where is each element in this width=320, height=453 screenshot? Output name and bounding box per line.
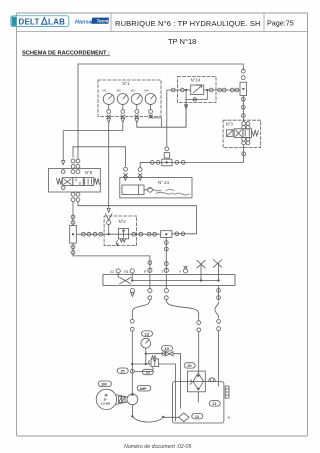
couplers N°3 bottom <box>242 138 250 145</box>
box N°2 dashed <box>104 216 137 246</box>
svg-text:Tecnik: Tecnik <box>97 19 112 24</box>
junction dots gauge line <box>131 353 147 366</box>
coupler below M2 <box>121 110 125 123</box>
svg-text:X2: X2 <box>110 270 114 274</box>
svg-text:1M: 1M <box>101 382 107 387</box>
gauge M3 <box>131 89 143 110</box>
valve N°9 4/3 body <box>62 178 94 186</box>
flow meter FM1 <box>240 82 247 95</box>
coupler circles above P port <box>148 261 152 273</box>
couplers below P <box>148 289 152 300</box>
box N°9 solid <box>49 168 101 192</box>
svg-text:20: 20 <box>187 363 192 368</box>
wire N°14 drain down <box>185 102 187 127</box>
ports N°9 top inside <box>61 170 80 174</box>
valve N°3 4/2 <box>234 129 251 138</box>
coupler circles below FM2 <box>71 245 75 254</box>
gauge M4 <box>144 89 156 110</box>
gauge G13 <box>141 338 151 348</box>
wire N°24 right up to cylinder line <box>140 162 150 167</box>
pump P1 <box>127 393 138 404</box>
relief valve V18 <box>149 356 159 367</box>
svg-text:Page:75: Page:75 <box>267 19 294 28</box>
wire N°14 right <box>204 89 240 91</box>
coupler circles N°14 left <box>171 88 184 92</box>
level gauge <box>225 386 229 398</box>
svg-text:N°3: N°3 <box>226 121 234 126</box>
needle valve V19 <box>162 352 173 356</box>
flow control valve N°14 <box>191 85 204 95</box>
svg-text:TP N°18: TP N°18 <box>168 37 196 46</box>
coupler circles above N°3 <box>241 97 245 117</box>
junction dots N°14 <box>185 89 208 91</box>
coupler below R1 <box>130 289 134 297</box>
svg-text:M2: M2 <box>117 89 121 93</box>
balloon 1MP pump <box>137 385 151 391</box>
coupler circles on N°2 wire <box>82 232 103 236</box>
port 15 on pump column <box>130 370 134 374</box>
spring N°9 left <box>57 178 63 184</box>
logo DELTALAB <box>11 16 69 27</box>
svg-text:12: 12 <box>195 414 200 419</box>
wire to needle valve <box>146 353 165 355</box>
wire N°9 to N°24 left couplers <box>73 147 126 166</box>
wire N°9 B-port down to flowmeter FM2 <box>72 202 74 226</box>
couplers N°9 bottom <box>71 192 80 201</box>
restrictor on T2 up line <box>164 147 169 158</box>
couplers pump column <box>130 319 134 331</box>
wire relief drain <box>134 367 153 372</box>
wire FM1 down to N°3 <box>242 96 244 122</box>
hose squiggle return <box>215 302 219 318</box>
balloon 1M motor <box>98 381 111 387</box>
wire N°9 A-port down then right (W1) <box>78 202 197 234</box>
cylinder N°24 <box>122 185 152 195</box>
svg-text:M4: M4 <box>144 89 148 93</box>
coupler below M3 <box>135 110 139 123</box>
wire top supply line <box>78 64 243 159</box>
return filter F20 <box>188 371 206 392</box>
port X2 <box>110 269 120 278</box>
wire return into tank <box>218 331 220 387</box>
wire FM2 to tee T1 <box>76 233 160 235</box>
svg-text:N°1: N°1 <box>123 81 131 86</box>
wire filter outlet <box>197 392 199 402</box>
junction dot N°2 inlet <box>108 233 110 235</box>
manifold P passage <box>149 275 151 289</box>
solenoid N°3 left <box>226 130 233 137</box>
box N°1 dashed <box>98 80 161 117</box>
balloon 18 <box>142 369 153 374</box>
svg-text:N°14: N°14 <box>191 77 201 82</box>
check valve V1 into N°2 <box>105 214 112 234</box>
wire pump junction to relief <box>132 363 151 365</box>
balloon 13 <box>142 331 153 336</box>
spring N°9 right <box>94 178 100 184</box>
svg-text:19: 19 <box>165 346 170 351</box>
wire M3 to N°14 bypass <box>137 99 186 127</box>
balloon 15 <box>117 368 128 373</box>
svg-text:N° 24: N° 24 <box>158 180 170 185</box>
couplers tank return column <box>197 321 201 332</box>
wire manifold return to tank <box>218 286 220 301</box>
svg-text:R1: R1 <box>124 270 129 274</box>
box N°14 dashed <box>178 76 216 102</box>
manifold internal return line <box>132 280 218 282</box>
couplers N°3 top <box>242 122 250 129</box>
wire M4 jog <box>151 115 162 127</box>
svg-text:DELT: DELT <box>19 18 40 27</box>
port Y <box>179 267 188 274</box>
svg-text:Numéro de document :02-05: Numéro de document :02-05 <box>124 444 191 450</box>
svg-text:N°9: N°9 <box>85 170 93 175</box>
svg-text:M1: M1 <box>103 89 107 93</box>
coupler below M1 <box>107 110 111 123</box>
wire pump column down <box>131 331 133 394</box>
wire M1 down <box>108 123 110 209</box>
couplers return right lower <box>217 320 221 331</box>
manifold T passage <box>165 275 167 289</box>
coupling motor-pump <box>116 395 127 405</box>
wire pump suction arc <box>131 405 164 422</box>
wire T1 down to T port <box>165 238 167 273</box>
spring N°3 right <box>252 130 259 135</box>
coupler below M4 <box>149 110 153 119</box>
header row lines <box>17 13 308 32</box>
wire relief out to tank <box>159 364 176 421</box>
wire G13 down <box>145 348 147 364</box>
arrow into N°9 left <box>62 161 65 165</box>
crossed link X2-R1 <box>120 277 134 283</box>
wire suction to strainer <box>163 416 178 418</box>
svg-text:LAB: LAB <box>48 18 65 27</box>
arrow on drain <box>185 105 188 109</box>
coupler circles top right column <box>241 69 245 79</box>
junction dots filter <box>197 375 199 390</box>
svg-text:N°2: N°2 <box>119 219 127 224</box>
handwriting marks N°24 <box>147 189 190 195</box>
svg-text:1MP: 1MP <box>139 387 147 391</box>
svg-text:13: 13 <box>145 331 150 336</box>
balloon 11 <box>209 401 220 406</box>
plugged port XB <box>213 260 221 282</box>
svg-text:M3: M3 <box>131 89 135 93</box>
coupler circles N°14 right <box>209 88 239 92</box>
wire N°3 down to cylinder line <box>140 145 243 163</box>
tank <box>173 382 224 423</box>
port R1 <box>124 269 134 281</box>
manifold block <box>103 275 235 286</box>
coupler circles on W1 return <box>175 232 185 236</box>
wire N°14 left <box>167 90 191 147</box>
plugged port XA <box>197 260 205 281</box>
svg-text:SCHEMA DE RACCORDEMENT :: SCHEMA DE RACCORDEMENT : <box>22 51 110 57</box>
breather <box>209 378 216 382</box>
box N°24 solid <box>120 178 192 198</box>
balloon 20 <box>184 363 195 368</box>
svg-text:1,5 kW: 1,5 kW <box>101 402 111 406</box>
svg-text:15: 15 <box>120 368 125 373</box>
wire FM2 down then right to P column <box>73 243 150 273</box>
coupler circles cylinder line right <box>175 161 185 165</box>
motor M <box>96 389 116 409</box>
balloon 19 <box>162 346 173 351</box>
bypass check N°14 <box>186 90 207 101</box>
balloon 12 <box>192 414 203 419</box>
logo HansaTecnik <box>75 18 111 26</box>
coupler circle below N°3 <box>242 152 246 156</box>
couplers N°24 right <box>138 168 142 181</box>
coupler circles cylinder line left <box>150 161 160 165</box>
svg-text:18: 18 <box>145 370 150 375</box>
hose P to pump column <box>132 300 150 319</box>
wire V19 to tank <box>173 354 181 409</box>
gauge M1 <box>103 89 115 110</box>
flow meter FM2 <box>70 225 77 243</box>
svg-text:RUBRIQUE N°6 : TP HYDRAULIQUE: RUBRIQUE N°6 : TP HYDRAULIQUE. SH <box>115 19 261 28</box>
tee block T2 <box>162 159 172 166</box>
couplers below T <box>164 289 168 300</box>
gauge M2 <box>117 89 129 110</box>
tee block T1 <box>161 231 172 238</box>
pressure valve N°2 <box>116 229 128 245</box>
hose T to tank return column <box>166 300 198 320</box>
box N°3 dashed <box>223 120 261 147</box>
wire M2 to N°9 pilot <box>63 123 123 161</box>
coupler circles N°2 right <box>132 232 157 236</box>
couplers N°24 left <box>124 167 128 180</box>
coupler circles above T port <box>164 241 168 273</box>
coupler circles FM2 top <box>71 215 75 224</box>
svg-text:Hansa: Hansa <box>75 20 92 26</box>
couplers return right <box>217 289 221 300</box>
wire M1 check valve drop <box>107 208 110 212</box>
wire tank return column down <box>198 332 200 371</box>
port N°9 bottom-left inside <box>61 186 65 190</box>
strainer S12 <box>179 413 189 422</box>
couplers N°9 top <box>71 159 80 168</box>
